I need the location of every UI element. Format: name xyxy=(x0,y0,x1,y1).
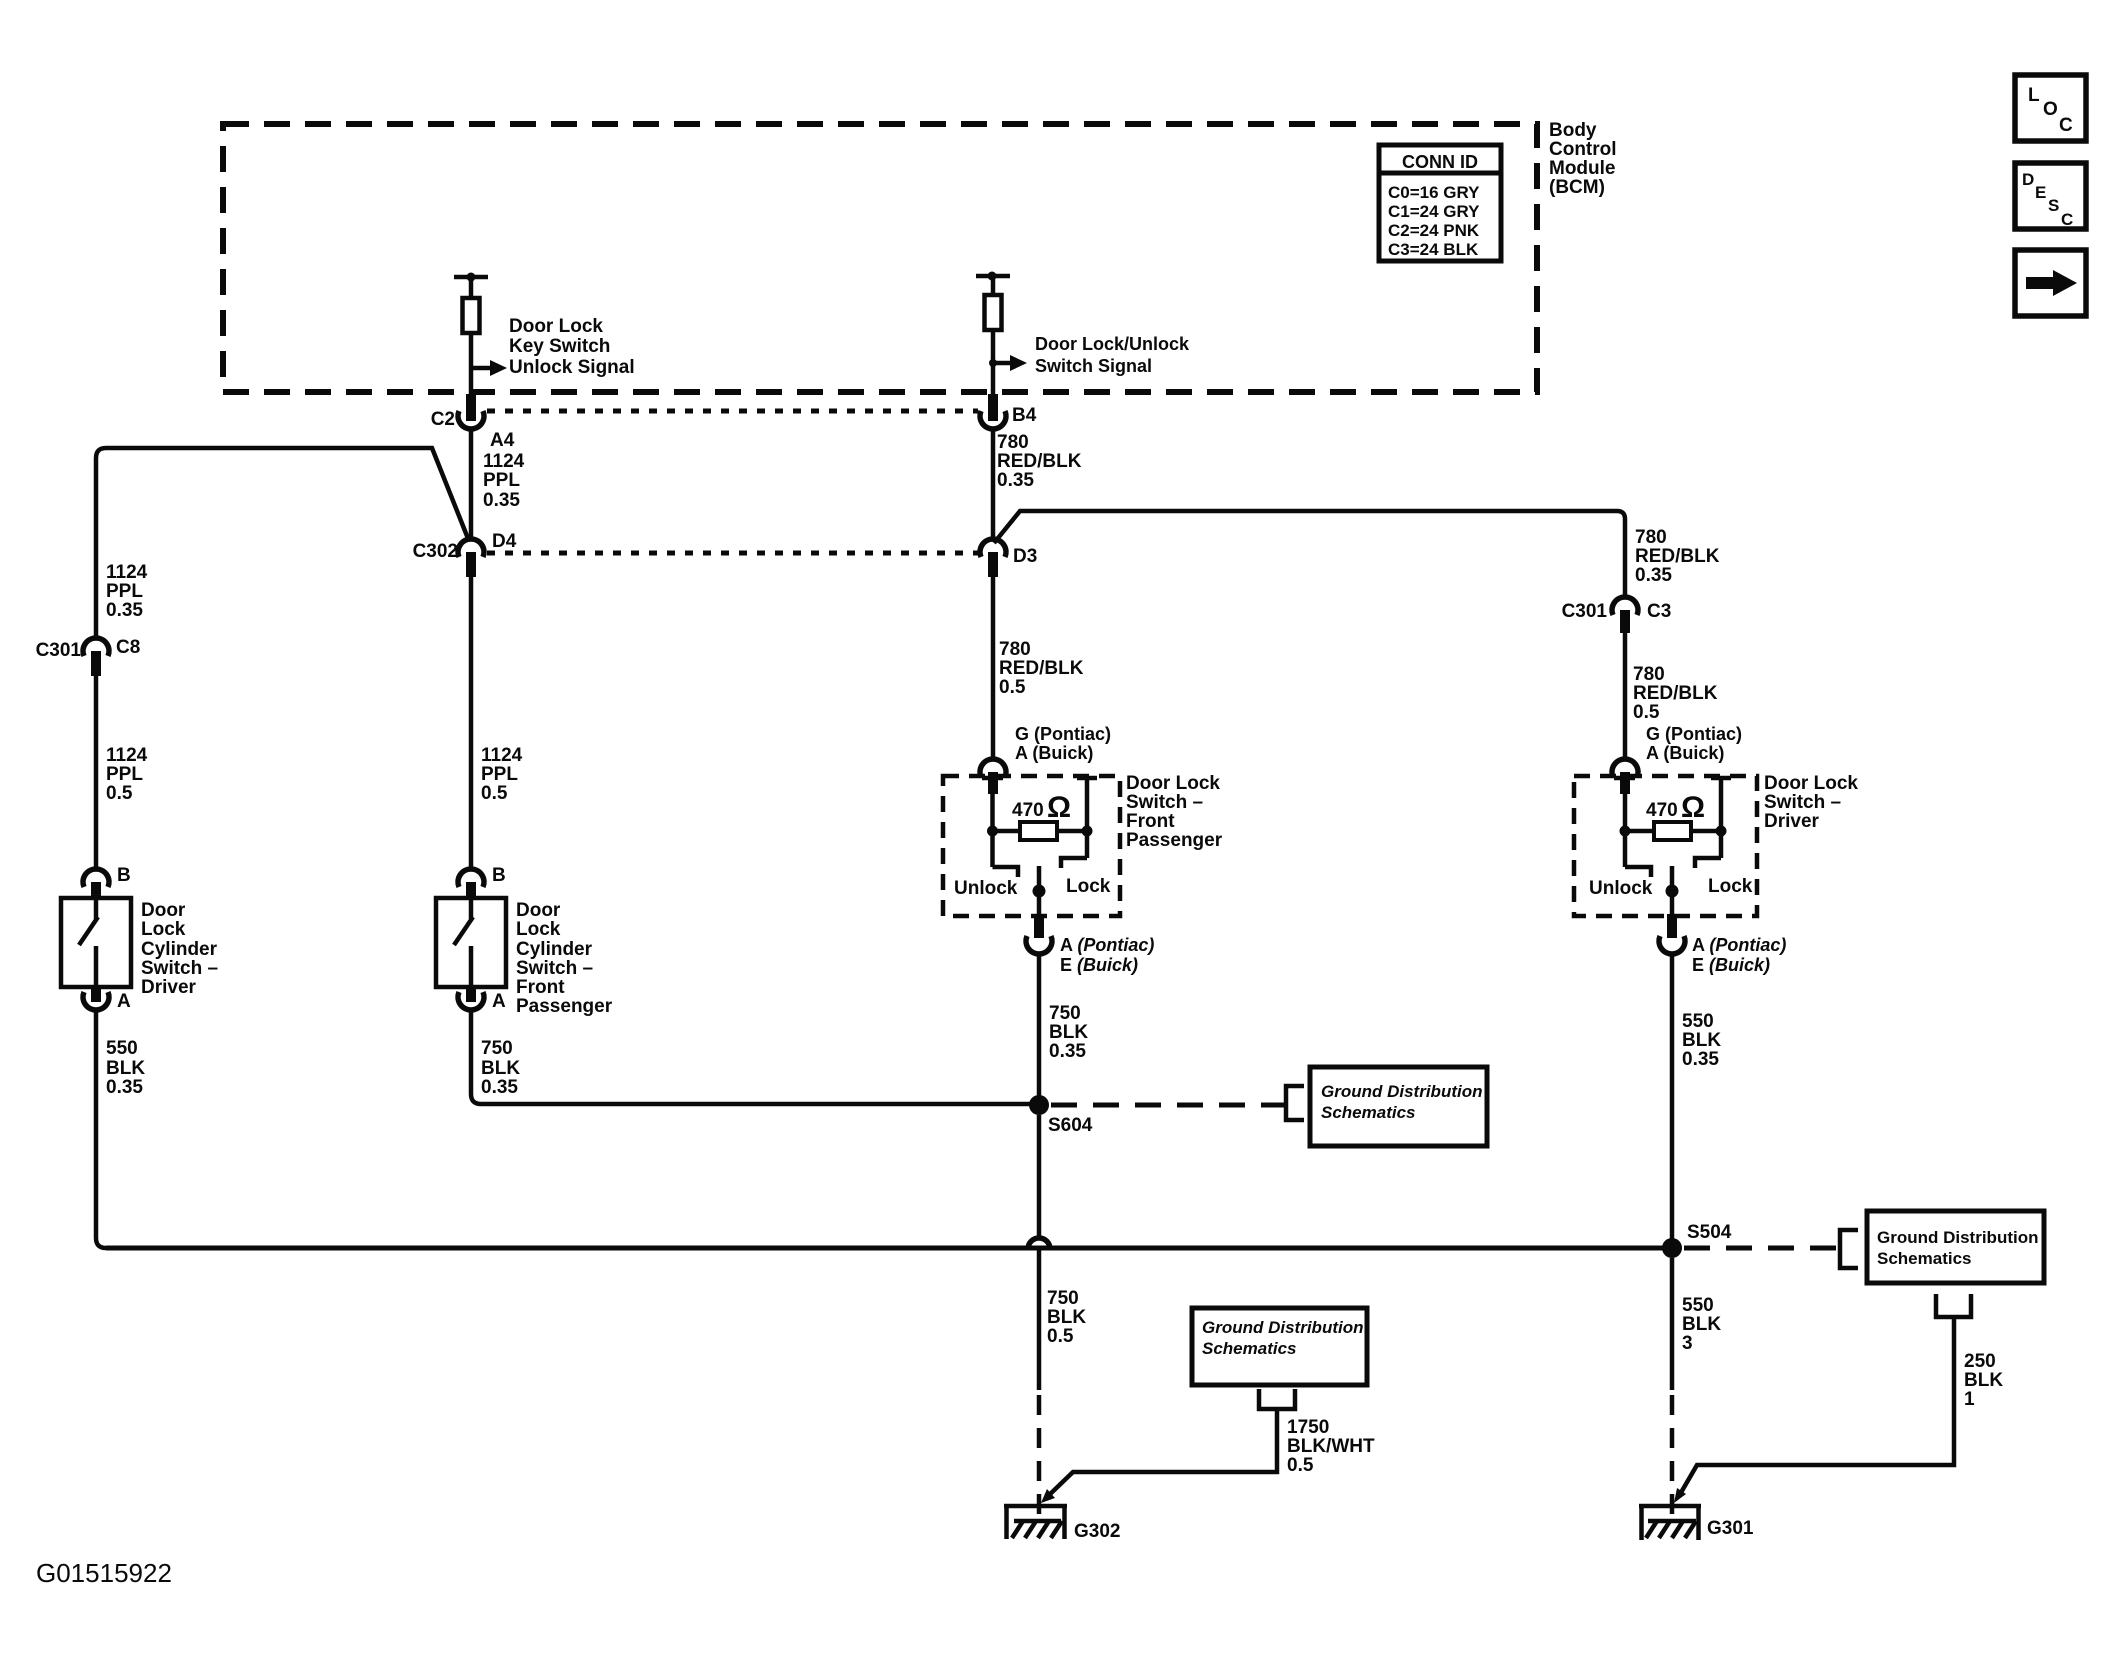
connector pin G (Pontiac) A (Buick) - passenger door lock switch xyxy=(980,724,1111,794)
svg-text:1: 1 xyxy=(1964,1389,1975,1410)
dashed wire segment to ground G301 xyxy=(1670,1395,1675,1521)
ground G302 xyxy=(1004,1506,1120,1542)
svg-text:0.35: 0.35 xyxy=(1635,565,1672,586)
dashed wire segment to ground G302 xyxy=(1037,1395,1042,1521)
svg-text:BLK: BLK xyxy=(1964,1370,2003,1391)
svg-text:Lock: Lock xyxy=(141,919,186,940)
svg-text:Switch –: Switch – xyxy=(516,958,593,979)
svg-text:550: 550 xyxy=(106,1038,138,1059)
wire S604 down with hop over S504 bus xyxy=(1028,1115,1086,1390)
signal arrow: Door Lock/Unlock Switch Signal xyxy=(993,361,1010,366)
wire xyxy=(991,276,996,295)
svg-text:750: 750 xyxy=(481,1038,513,1059)
svg-text:Module: Module xyxy=(1549,158,1616,179)
svg-text:S504: S504 xyxy=(1687,1222,1732,1243)
svg-text:Switch –: Switch – xyxy=(1764,792,1841,813)
svg-text:470: 470 xyxy=(1646,800,1678,821)
svg-text:C0=16 GRY: C0=16 GRY xyxy=(1388,183,1480,202)
svg-text:A (Pontiac): A (Pontiac) xyxy=(1692,935,1786,955)
svg-text:750: 750 xyxy=(1047,1288,1079,1309)
wire C8 to driver cylinder switch, 1124 PPL 0.5 xyxy=(96,676,148,868)
passenger switch contacts xyxy=(982,778,1097,877)
svg-text:CONN ID: CONN ID xyxy=(1402,152,1478,172)
in-line harness dotted line C302 row xyxy=(487,551,978,556)
ground distribution schematics reference box (bottom middle) xyxy=(1192,1308,1367,1385)
svg-text:Unlock Signal: Unlock Signal xyxy=(509,357,635,378)
svg-text:Ω: Ω xyxy=(1681,791,1705,824)
svg-text:RED/BLK: RED/BLK xyxy=(1633,683,1718,704)
svg-text:Door Lock: Door Lock xyxy=(509,316,603,337)
resistor 470 ohm (passenger door lock switch) xyxy=(987,791,1093,840)
svg-text:Switch Signal: Switch Signal xyxy=(1035,356,1152,376)
svg-text:1124: 1124 xyxy=(106,562,148,583)
svg-text:0.35: 0.35 xyxy=(106,1077,143,1098)
svg-text:Body: Body xyxy=(1549,120,1597,141)
signal arrow: Door Lock Key Switch Unlock Signal xyxy=(471,366,490,371)
connector pin B (driver cylinder switch) xyxy=(83,865,131,900)
svg-text:0.5: 0.5 xyxy=(106,783,133,804)
svg-text:Passenger: Passenger xyxy=(516,996,613,1017)
svg-text:RED/BLK: RED/BLK xyxy=(997,451,1082,472)
connector C302 pin D3 xyxy=(980,539,1037,577)
svg-text:BLK: BLK xyxy=(1049,1022,1088,1043)
BCM internal circuit: door lock key switch line xyxy=(454,273,635,397)
connector pin G (Pontiac) A (Buick) - driver door lock switch xyxy=(1612,724,1742,794)
svg-text:A: A xyxy=(117,991,131,1012)
svg-text:780: 780 xyxy=(997,432,1029,453)
svg-text:B4: B4 xyxy=(1012,405,1037,426)
svg-text:550: 550 xyxy=(1682,1295,1714,1316)
connector bracket to S504 reference box xyxy=(1840,1230,1858,1268)
wire D3 to passenger door lock switch, 780 RED/BLK 0.5 xyxy=(993,577,1084,760)
svg-text:G01515922: G01515922 xyxy=(36,1558,172,1588)
svg-text:Lock: Lock xyxy=(1066,876,1111,897)
svg-text:Switch –: Switch – xyxy=(1126,792,1203,813)
svg-text:1124: 1124 xyxy=(106,745,148,766)
Body Control Module (BCM) dashed box xyxy=(223,124,1537,392)
connector bracket below bottom middle box xyxy=(1259,1389,1295,1409)
wire driver switch A to S504 run, 550 BLK 0.35 xyxy=(96,1011,145,1248)
svg-text:Ω: Ω xyxy=(1047,791,1071,824)
splice S604 xyxy=(1029,1095,1093,1136)
svg-text:A4: A4 xyxy=(490,430,515,451)
BCM internal circuit: door lock/unlock switch line xyxy=(976,272,1190,397)
dashed lead S504 to ground distribution reference xyxy=(1684,1246,1838,1251)
svg-text:G (Pontiac): G (Pontiac) xyxy=(1015,724,1111,744)
svg-text:O: O xyxy=(2043,99,2058,120)
svg-text:G (Pontiac): G (Pontiac) xyxy=(1646,724,1742,744)
svg-text:780: 780 xyxy=(999,639,1031,660)
wire xyxy=(469,333,474,396)
svg-text:C301: C301 xyxy=(36,640,82,661)
svg-text:E: E xyxy=(2035,183,2046,202)
node tee-bar xyxy=(976,274,1010,279)
svg-text:Driver: Driver xyxy=(1764,811,1820,832)
svg-text:Lock: Lock xyxy=(1708,876,1753,897)
svg-text:Control: Control xyxy=(1549,139,1617,160)
svg-text:RED/BLK: RED/BLK xyxy=(1635,546,1720,567)
resistor (BCM internal, key switch line) xyxy=(463,298,480,333)
svg-text:C3: C3 xyxy=(1647,601,1671,622)
svg-text:D4: D4 xyxy=(492,531,517,552)
wire B4 to D3, 780 RED/BLK 0.35 xyxy=(993,430,1082,538)
wire 250 BLK 1 to ground G301 xyxy=(1674,1317,2003,1503)
svg-text:L: L xyxy=(2028,85,2040,106)
svg-text:250: 250 xyxy=(1964,1351,1996,1372)
svg-text:780: 780 xyxy=(1635,527,1667,548)
BCM name label xyxy=(1549,120,1617,198)
svg-text:B: B xyxy=(117,865,131,886)
svg-text:E (Buick): E (Buick) xyxy=(1060,955,1138,975)
svg-text:1124: 1124 xyxy=(481,745,523,766)
svg-text:0.5: 0.5 xyxy=(1633,702,1660,723)
svg-text:(BCM): (BCM) xyxy=(1549,177,1605,198)
node tee-bar xyxy=(454,275,488,280)
svg-text:C302: C302 xyxy=(413,541,458,562)
ground G301 xyxy=(1639,1506,1754,1540)
svg-text:G302: G302 xyxy=(1074,1521,1120,1542)
wire C302/D4 to passenger cylinder switch, 1124 PPL 0.5 xyxy=(471,577,523,868)
svg-text:B: B xyxy=(492,865,506,886)
connector bracket to S604 reference box xyxy=(1286,1086,1304,1120)
door lock cylinder switch - front passenger xyxy=(436,898,613,1017)
svg-text:Front: Front xyxy=(516,977,565,998)
wire 1750 BLK/WHT 0.5 to ground G302 xyxy=(1041,1409,1375,1503)
door lock cylinder switch - driver xyxy=(61,898,218,998)
svg-text:A (Pontiac): A (Pontiac) xyxy=(1060,935,1154,955)
svg-text:0.5: 0.5 xyxy=(481,783,508,804)
driver switch contacts xyxy=(1614,778,1731,877)
svg-text:C301: C301 xyxy=(1562,601,1608,622)
svg-text:S604: S604 xyxy=(1048,1115,1093,1136)
wire S504 down, 550 BLK 3 xyxy=(1672,1258,1721,1390)
connector B4 (BCM side) xyxy=(980,394,1037,429)
LOC nav icon xyxy=(2015,75,2086,141)
svg-text:C1=24 GRY: C1=24 GRY xyxy=(1388,202,1480,221)
svg-text:S: S xyxy=(2048,196,2059,215)
wire xyxy=(991,330,996,396)
svg-text:Schematics: Schematics xyxy=(1321,1103,1416,1122)
svg-text:Unlock: Unlock xyxy=(1589,878,1653,899)
svg-text:BLK: BLK xyxy=(481,1058,520,1079)
svg-text:1124: 1124 xyxy=(483,451,525,472)
driver switch pole wire and junction xyxy=(1666,866,1679,918)
Unlock / Lock position labels (passenger) xyxy=(954,876,1111,899)
svg-text:Schematics: Schematics xyxy=(1877,1249,1972,1268)
svg-text:Door Lock: Door Lock xyxy=(1126,773,1220,794)
svg-text:750: 750 xyxy=(1049,1003,1081,1024)
connector C302 pin D4 xyxy=(413,531,517,577)
splice S504 xyxy=(1662,1222,1732,1258)
svg-text:Ground Distribution: Ground Distribution xyxy=(1321,1082,1482,1101)
wire A/E to S504, 550 BLK 0.35 xyxy=(1672,955,1721,1248)
svg-text:C2=24 PNK: C2=24 PNK xyxy=(1388,221,1480,240)
connector pin B (passenger cylinder switch) xyxy=(458,865,506,900)
svg-text:Door Lock/Unlock: Door Lock/Unlock xyxy=(1035,334,1190,354)
svg-text:Door: Door xyxy=(516,900,561,921)
svg-text:Key Switch: Key Switch xyxy=(509,336,610,357)
svg-text:Schematics: Schematics xyxy=(1202,1339,1297,1358)
svg-text:0.5: 0.5 xyxy=(1047,1326,1074,1347)
svg-text:Switch –: Switch – xyxy=(141,958,218,979)
svg-text:0.35: 0.35 xyxy=(106,600,143,621)
svg-text:1750: 1750 xyxy=(1287,1417,1329,1438)
label 1124 PPL 0.35 (left branch) xyxy=(106,562,148,621)
svg-text:3: 3 xyxy=(1682,1333,1693,1354)
svg-text:Ground Distribution: Ground Distribution xyxy=(1202,1318,1363,1337)
passenger switch pole wire and junction xyxy=(1033,866,1046,918)
svg-text:0.35: 0.35 xyxy=(1682,1049,1719,1070)
svg-text:BLK: BLK xyxy=(106,1058,145,1079)
svg-text:RED/BLK: RED/BLK xyxy=(999,658,1084,679)
svg-text:PPL: PPL xyxy=(483,470,520,491)
connector pin A (Pontiac) E (Buick) - driver door lock switch xyxy=(1659,914,1786,975)
svg-text:G301: G301 xyxy=(1707,1518,1754,1539)
connector pin A (driver cylinder switch) xyxy=(83,987,131,1012)
connector bracket below S504 reference box xyxy=(1936,1294,1971,1317)
in-line harness dotted line C2 row xyxy=(487,409,978,414)
svg-text:C3=24 BLK: C3=24 BLK xyxy=(1388,240,1479,259)
svg-text:0.35: 0.35 xyxy=(997,470,1034,491)
svg-text:BLK/WHT: BLK/WHT xyxy=(1287,1436,1375,1457)
svg-text:PPL: PPL xyxy=(481,764,518,785)
svg-text:BLK: BLK xyxy=(1682,1314,1721,1335)
forward arrow nav icon xyxy=(2015,250,2086,316)
svg-text:0.35: 0.35 xyxy=(483,490,520,511)
svg-text:D: D xyxy=(2022,170,2034,189)
svg-text:Ground Distribution: Ground Distribution xyxy=(1877,1228,2038,1247)
Unlock / Lock position labels (driver) xyxy=(1589,876,1753,899)
svg-text:A: A xyxy=(492,991,506,1012)
resistor 470 ohm (driver door lock switch) xyxy=(1620,791,1727,840)
svg-text:Door Lock: Door Lock xyxy=(1764,773,1858,794)
svg-text:Front: Front xyxy=(1126,811,1175,832)
svg-text:BLK: BLK xyxy=(1047,1307,1086,1328)
svg-text:0.5: 0.5 xyxy=(1287,1455,1314,1476)
wire C2/A4 to C302/D4, 1124 PPL 0.35 xyxy=(471,430,525,538)
svg-text:D3: D3 xyxy=(1013,546,1037,567)
door lock switch - front passenger dashed box xyxy=(943,773,1223,916)
ground distribution schematics reference box (S504) xyxy=(1867,1211,2044,1283)
svg-text:0.35: 0.35 xyxy=(481,1077,518,1098)
svg-text:C: C xyxy=(2059,115,2073,136)
svg-text:0.5: 0.5 xyxy=(999,677,1026,698)
svg-text:Cylinder: Cylinder xyxy=(141,939,218,960)
connector pin A (passenger cylinder switch) xyxy=(458,987,506,1012)
svg-text:C8: C8 xyxy=(116,637,140,658)
wire passenger switch A to S604 run, 750 BLK 0.35 xyxy=(471,1011,1039,1104)
svg-text:550: 550 xyxy=(1682,1011,1714,1032)
svg-text:0.35: 0.35 xyxy=(1049,1041,1086,1062)
svg-text:Passenger: Passenger xyxy=(1126,830,1223,851)
svg-text:Driver: Driver xyxy=(141,977,197,998)
svg-text:C: C xyxy=(2061,210,2073,229)
svg-text:Lock: Lock xyxy=(516,919,561,940)
dashed lead S604 to ground distribution reference xyxy=(1051,1103,1285,1108)
svg-text:Door: Door xyxy=(141,900,186,921)
svg-text:PPL: PPL xyxy=(106,764,143,785)
svg-text:A (Buick): A (Buick) xyxy=(1015,743,1093,763)
resistor (BCM internal, lock/unlock switch line) xyxy=(985,295,1002,330)
svg-text:PPL: PPL xyxy=(106,581,143,602)
wire A/E to S604, 750 BLK 0.35 xyxy=(1039,955,1088,1104)
DESC nav icon xyxy=(2015,163,2086,229)
wire branch A4 node to left run xyxy=(96,448,469,638)
CONN ID table xyxy=(1379,145,1501,261)
door lock switch - driver dashed box xyxy=(1574,773,1858,916)
svg-text:Cylinder: Cylinder xyxy=(516,939,593,960)
wire C3 to driver door lock switch, 780 RED/BLK 0.5 xyxy=(1625,633,1718,760)
svg-text:E (Buick): E (Buick) xyxy=(1692,955,1770,975)
svg-text:C2: C2 xyxy=(431,409,455,430)
connector C301 pin C8 xyxy=(36,637,141,676)
wire branch D3 to driver door lock switch run, 780 RED/BLK 0.35 xyxy=(994,511,1720,596)
connector C301 pin C3 xyxy=(1562,597,1672,633)
wire xyxy=(469,277,474,298)
svg-text:470: 470 xyxy=(1012,800,1044,821)
svg-text:A (Buick): A (Buick) xyxy=(1646,743,1724,763)
svg-text:BLK: BLK xyxy=(1682,1030,1721,1051)
connector pin A (Pontiac) E (Buick) - passenger door lock switch xyxy=(1026,914,1154,975)
svg-text:780: 780 xyxy=(1633,664,1665,685)
ground distribution schematics reference box (S604) xyxy=(1310,1067,1487,1146)
svg-text:Unlock: Unlock xyxy=(954,878,1018,899)
connector C2 pin A4 (BCM side) xyxy=(431,394,515,451)
S504 bus wire xyxy=(106,1246,1672,1251)
